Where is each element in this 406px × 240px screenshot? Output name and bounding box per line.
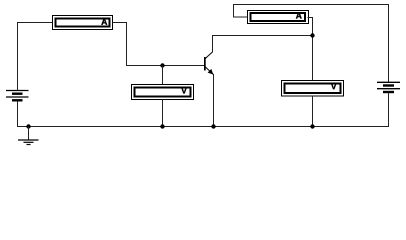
wire right vertical from top wire down to battery B2 bbox=[388, 4, 390, 82]
transistor Q1 emitter arrow bbox=[208, 69, 214, 75]
transistor Q1 collector diagonal bbox=[205, 52, 213, 59]
wire right vertical from battery B2 bottom to bus bbox=[388, 93, 390, 128]
wire top-left horizontal from left loop corner to ammeter A1 bbox=[17, 22, 53, 24]
transistor Q1 base bar bbox=[204, 57, 206, 71]
wire left vertical from battery B1 bottom to bottom bus bbox=[17, 101, 19, 127]
wire vertical from A2 down through junction to voltmeter V2 bbox=[312, 18, 314, 82]
wire emitter vertical down to bus bbox=[213, 74, 215, 127]
transistor Q1 (NPN) bbox=[204, 52, 213, 75]
wire bottom bus bbox=[17, 126, 389, 128]
voltmeter V1 label bbox=[181, 88, 187, 94]
wire top horizontal to right battery bbox=[233, 4, 389, 6]
wire from voltmeter V1 bottom to bus bbox=[162, 100, 164, 128]
wire from A2 right to drop bbox=[308, 17, 314, 19]
ammeter A1 label bbox=[101, 19, 107, 25]
ammeter A2 label bbox=[296, 13, 302, 19]
ground symbol bbox=[18, 140, 39, 145]
voltmeter V2 bbox=[282, 81, 344, 97]
wire left vertical from corner down to battery B1 top bbox=[17, 22, 19, 90]
ammeter A1 (top-left) bbox=[53, 16, 113, 30]
wire vertical down from A1 corner to base wire bbox=[126, 23, 128, 67]
node junction dot V2/bus bbox=[310, 124, 314, 128]
node junction dot base/voltmeter V1 bbox=[160, 63, 164, 67]
battery B2 (right) bbox=[377, 82, 400, 92]
wire from A1 right to corner bbox=[113, 22, 128, 24]
transistor Q1 emitter diagonal bbox=[205, 67, 213, 75]
node junction dot collector/A2/V2 bbox=[310, 33, 314, 37]
voltmeter V2 label bbox=[331, 83, 337, 89]
wire riser up to top wire bbox=[233, 4, 235, 17]
wire from voltmeter V2 bottom to bus bbox=[312, 96, 314, 127]
wire ground stub bbox=[28, 127, 30, 140]
ammeter A2 (top-right) bbox=[248, 11, 309, 24]
voltmeter V1 bbox=[132, 85, 194, 100]
wire base horizontal to transistor Q1 bbox=[126, 65, 205, 67]
node junction dot ground connection bbox=[26, 124, 30, 128]
node junction dot emitter/bus bbox=[211, 124, 215, 128]
node junction dot V1/bus bbox=[160, 124, 164, 128]
wire collector horizontal to right junction bbox=[212, 35, 313, 37]
battery B1 (left) bbox=[6, 91, 29, 101]
wire from A2 left to riser bbox=[233, 16, 248, 18]
wire collector vertical up bbox=[212, 36, 214, 53]
wire from junction down to voltmeter V1 top bbox=[162, 66, 164, 86]
